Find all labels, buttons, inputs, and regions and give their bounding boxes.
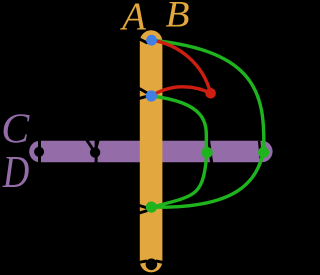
svg-text:D: D [2,146,29,197]
svg-text:A: A [119,0,146,38]
svg-text:B: B [166,0,190,35]
